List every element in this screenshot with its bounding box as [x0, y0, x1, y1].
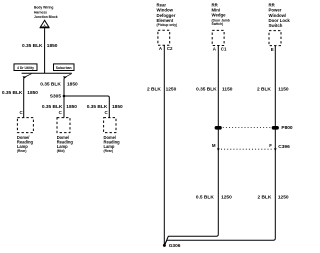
junction block attachment triangle A [40, 20, 50, 28]
svg-text:1850: 1850 [27, 90, 38, 96]
svg-text:0.35 BLK: 0.35 BLK [42, 104, 63, 110]
wire label 0.35 BLK 1150 (mini wedge) [196, 87, 233, 93]
svg-text:Junction Block: Junction Block [34, 15, 58, 19]
option split bar [22, 72, 72, 74]
wire: junction block to option split [44, 28, 46, 73]
svg-text:1250: 1250 [221, 195, 232, 201]
svg-text:0.35 BLK: 0.35 BLK [87, 104, 108, 110]
svg-text:1850: 1850 [67, 81, 78, 87]
svg-text:E: E [271, 47, 274, 52]
svg-text:1150: 1150 [222, 87, 233, 93]
wire: 4dr branch down to rear lamp [23, 78, 25, 117]
option box: 4 Dr Utility [14, 64, 37, 71]
wire label 0.35 BLK 1850 (suburban upper) [40, 81, 78, 87]
option box: Suburban [54, 64, 75, 71]
svg-text:Switch: Switch [269, 23, 283, 28]
grommet P800 (power window wire) [272, 126, 279, 130]
RR power window door lock switch box [269, 31, 281, 46]
option arrow right [63, 74, 72, 79]
dome/reading lamp (mid) box [57, 118, 74, 154]
wire label 0.35 BLK 1850 (top) [22, 43, 58, 49]
svg-text:1850: 1850 [66, 104, 77, 110]
dotted link C396 [221, 148, 272, 150]
wire: suburban branch down to mid lamp [63, 78, 65, 117]
svg-text:0.35 BLK: 0.35 BLK [40, 81, 61, 87]
svg-text:(Mid): (Mid) [57, 149, 65, 153]
connector half (mini wedge side) [217, 148, 220, 151]
wire label 2 BLK 1250 (power window lower) [257, 195, 288, 201]
svg-text:0.35 BLK: 0.35 BLK [22, 43, 43, 49]
RR power window door lock switch label [269, 2, 291, 28]
dome/reading lamp (rear, suburban) box [104, 118, 121, 154]
RR mini wedge label [212, 2, 230, 26]
wire label 0.35 BLK 1850 (mid lamp) [42, 104, 77, 110]
svg-text:0.35 BLK: 0.35 BLK [2, 90, 23, 96]
option arrow left [23, 74, 32, 79]
rear window defogger element box [158, 30, 170, 45]
rear window defogger element label [157, 2, 178, 27]
svg-text:C396: C396 [278, 144, 290, 150]
svg-text:0.35 BLK: 0.35 BLK [196, 87, 217, 93]
wire: defogger to G306 [163, 45, 165, 244]
svg-text:M: M [212, 143, 216, 148]
wire label 2 BLK 1250 (defogger) [147, 87, 177, 93]
svg-text:1250: 1250 [278, 195, 289, 201]
svg-text:2 BLK: 2 BLK [257, 195, 271, 201]
svg-text:0.5 BLK: 0.5 BLK [196, 195, 214, 201]
wire label 0.35 BLK 1850 (rear lamp suburban) [87, 104, 123, 110]
svg-text:G306: G306 [169, 243, 181, 249]
grommet P800 (mini wedge wire) [215, 126, 222, 130]
wire label 0.5 BLK 1250 (mini wedge lower) [196, 195, 232, 201]
svg-text:Suburban: Suburban [56, 66, 72, 70]
svg-text:1150: 1150 [278, 87, 289, 93]
dome/reading lamp (rear, 4dr) box [17, 118, 34, 154]
dotted link P800 [223, 127, 271, 129]
wire: power window switch down to bottom bend [165, 46, 276, 246]
junction block label [34, 6, 58, 19]
svg-text:1850: 1850 [112, 104, 123, 110]
wire: mini wedge down to bottom bend [165, 46, 219, 246]
svg-text:Wedge: Wedge [212, 13, 227, 18]
svg-text:(Rear): (Rear) [17, 149, 27, 153]
svg-text:4 Dr Utility: 4 Dr Utility [17, 66, 34, 70]
ground G306 [163, 243, 181, 249]
svg-text:S305: S305 [50, 93, 62, 99]
wire: S305 to rear lamp (suburban) [64, 96, 109, 118]
svg-text:Body Wiring: Body Wiring [34, 6, 53, 10]
svg-text:P800: P800 [281, 125, 293, 131]
svg-text:2 BLK: 2 BLK [147, 87, 161, 93]
svg-text:2 BLK: 2 BLK [257, 87, 271, 93]
svg-text:C2: C2 [167, 46, 173, 51]
svg-text:C1: C1 [221, 46, 227, 51]
wire label 2 BLK 1150 (power window switch) [257, 87, 289, 93]
wire label 0.35 BLK 1850 (4dr branch) [2, 90, 38, 96]
svg-text:F: F [269, 143, 272, 148]
svg-text:Harness: Harness [34, 10, 47, 14]
svg-text:1250: 1250 [166, 87, 177, 93]
svg-text:(Pickup only): (Pickup only) [157, 23, 178, 27]
svg-text:(Rear): (Rear) [104, 149, 114, 153]
splice S305 [50, 93, 66, 99]
RR mini wedge box [212, 30, 224, 45]
svg-text:1850: 1850 [47, 43, 58, 49]
connector half (power window side) [274, 148, 277, 151]
svg-text:Switch): Switch) [212, 22, 224, 26]
